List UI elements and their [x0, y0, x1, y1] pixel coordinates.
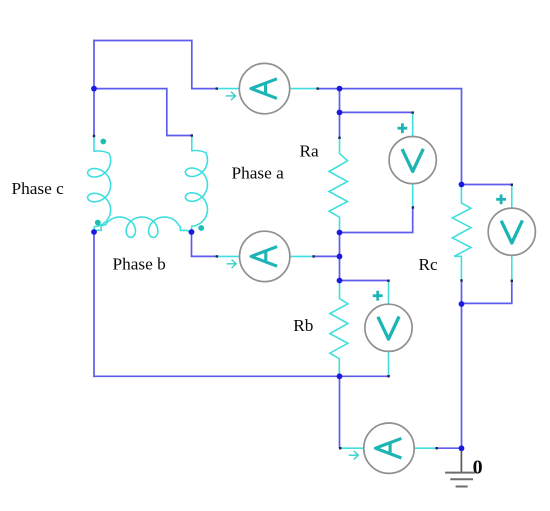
wire coil a bottom down — [191, 231, 193, 256]
wire Ra bottom to A2 node — [339, 232, 341, 258]
svg-text:0: 0 — [473, 456, 483, 478]
wire to ammeter A1 — [191, 88, 217, 90]
wire A3 output lead — [414, 447, 437, 449]
svg-text:Rb: Rb — [293, 316, 313, 335]
wire Rc bottom blue — [461, 281, 463, 305]
node Rc top — [459, 182, 465, 188]
label Rc — [419, 255, 439, 274]
wire ammeter A1 to node — [318, 88, 341, 90]
pin V2 top — [387, 280, 389, 282]
pin A3 left — [339, 447, 341, 449]
wire A1 input lead — [217, 88, 241, 90]
label node 0 — [473, 456, 483, 478]
wire A2 output lead — [290, 255, 314, 257]
ground — [445, 451, 475, 487]
wire A1 output lead — [290, 88, 319, 90]
wire ammeter A2 to node — [313, 255, 340, 257]
wire coil a to ammeter A2 — [191, 255, 216, 257]
pin Ra top — [338, 137, 340, 139]
pin A1 right — [317, 87, 319, 89]
current arrow A3 — [349, 451, 359, 459]
wire node B horizontal — [94, 88, 167, 90]
wire top loop right vertical — [191, 40, 193, 89]
polarity dot coil a — [198, 225, 204, 231]
wire top-left vertical — [93, 40, 95, 89]
wire A2 node down to Rb — [339, 256, 341, 281]
wire bottom node to A3 — [339, 376, 341, 449]
pin V1 bottom — [412, 206, 414, 208]
wire Ra top — [339, 112, 341, 137]
plus sign V1 — [398, 123, 408, 133]
pin V1 top — [412, 111, 414, 113]
pin V2 bottom — [387, 375, 389, 377]
voltmeter V2 — [365, 304, 412, 351]
wire to voltmeter V1 — [340, 111, 413, 113]
current arrow A1 — [226, 92, 236, 100]
resistor Rb — [330, 281, 348, 376]
resistor Rc — [452, 186, 471, 281]
ammeter A3 — [364, 423, 414, 473]
pin V3 top — [511, 184, 513, 186]
pin Rc bottom — [460, 279, 462, 281]
label Phase c — [12, 179, 65, 198]
wire right bus down to Rc — [461, 88, 463, 185]
node coil a bottom — [189, 229, 195, 235]
svg-text:Ra: Ra — [300, 142, 320, 161]
label Ra — [300, 142, 320, 161]
wire to voltmeter V3 — [461, 184, 512, 186]
wire to coil c top — [93, 89, 95, 137]
wire bottom bus — [93, 375, 389, 377]
voltmeter V3 — [488, 208, 535, 255]
node top-left junction — [91, 86, 97, 92]
pin coil a top — [191, 134, 193, 136]
node Rb top — [337, 278, 343, 284]
inductor winding Phase a — [185, 136, 207, 232]
node V1 branch — [337, 110, 343, 116]
node Rc bottom — [459, 301, 465, 307]
polarity dot coil b — [95, 220, 101, 226]
label Phase b — [113, 255, 166, 274]
wire A2 input lead — [217, 255, 242, 257]
wire V2 bottom lead — [388, 352, 390, 375]
inductor winding Phase c — [88, 136, 111, 232]
polarity dot coil c — [100, 139, 106, 145]
wire V1 bottom return — [339, 208, 413, 233]
wire A3 input lead — [340, 447, 364, 449]
pin A2 right — [312, 255, 314, 257]
wire V3 bottom return — [461, 281, 512, 304]
wire node stub down — [339, 89, 341, 113]
pin A3 right — [436, 447, 438, 449]
node bottom bus — [337, 373, 343, 379]
pin A1 left — [216, 87, 218, 89]
node Ra bottom — [337, 230, 343, 236]
plus sign V2 — [373, 291, 383, 301]
svg-text:Phase a: Phase a — [232, 164, 285, 183]
resistor Ra — [329, 138, 348, 233]
label Phase a — [232, 164, 285, 183]
wire left bus down — [93, 231, 95, 377]
svg-text:Rc: Rc — [419, 255, 439, 274]
wire to voltmeter V2 — [340, 280, 389, 282]
svg-text:Phase b: Phase b — [113, 255, 166, 274]
pin V3 bottom — [511, 280, 513, 282]
wire Rc bottom to A3 node — [461, 303, 463, 449]
wire V3 top lead — [511, 185, 513, 208]
wire step vertical — [166, 88, 168, 136]
inductor winding Phase b — [95, 217, 192, 237]
wire V2 bottom corner — [388, 375, 390, 378]
node A3 output — [459, 445, 465, 451]
wire V1 top lead — [412, 113, 414, 137]
svg-text:Phase c: Phase c — [12, 179, 65, 198]
wire step horizontal to coil a — [166, 135, 192, 137]
plus sign V3 — [496, 194, 506, 204]
node A2 output — [337, 254, 343, 260]
current arrow A2 — [226, 260, 236, 268]
ammeter A2 — [240, 231, 290, 281]
wire V3 bottom lead — [511, 255, 513, 281]
wire V2 top lead — [388, 281, 390, 304]
ammeter A1 — [239, 63, 289, 113]
pin A2 left — [216, 255, 218, 257]
node A1 output — [337, 86, 343, 92]
node coil c bottom — [91, 229, 97, 235]
voltmeter V1 — [389, 137, 436, 184]
label Rb — [293, 316, 313, 335]
wire top bus to right — [340, 88, 462, 90]
wire top horizontal — [93, 40, 192, 42]
wire ammeter A3 to node — [437, 447, 463, 449]
pin coil c top — [93, 135, 95, 137]
wire V1 bottom lead — [412, 183, 414, 207]
